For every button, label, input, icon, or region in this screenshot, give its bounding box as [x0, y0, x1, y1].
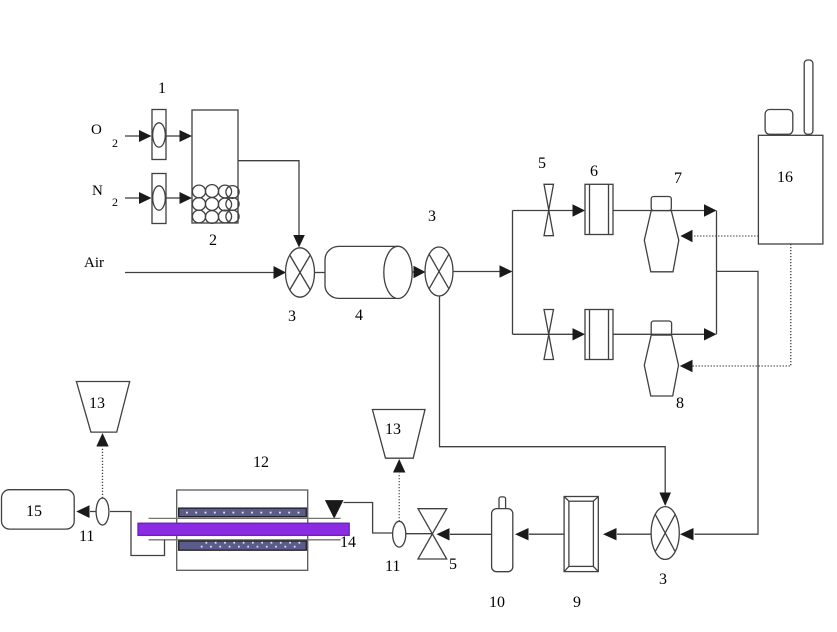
- svg-text:15: 15: [26, 503, 42, 520]
- wire valve 3a to buffer tank 4: [315, 272, 326, 274]
- svg-text:3: 3: [288, 308, 296, 325]
- analyzer 8 (bottom branch): [644, 321, 678, 396]
- top electrode dots: [186, 512, 299, 514]
- svg-text:10: 10: [489, 594, 505, 611]
- inner electrode 14 (purple rod): [138, 523, 349, 535]
- label 11 (left): [79, 528, 94, 545]
- dotted vent 11a to trap 13a: [102, 447, 104, 498]
- arrow into analyzer 7: [680, 230, 692, 243]
- valve 5b (needle valve, bottom branch): [544, 310, 554, 360]
- reactor bottom electrode bar: [179, 541, 307, 550]
- dryer 6a (top branch): [585, 184, 613, 234]
- rotameter 1b (N2): [152, 174, 166, 224]
- dryer 6b (bottom branch): [585, 310, 613, 360]
- arrow into valve 3c from top: [659, 493, 671, 507]
- label 8: [676, 395, 684, 412]
- svg-text:8: 8: [676, 395, 684, 412]
- arrow into trap 13a: [96, 433, 108, 447]
- svg-text:6: 6: [590, 163, 598, 180]
- wire collector to downcomer: [695, 271, 759, 534]
- valve 5c (needle valve, bottom): [418, 509, 447, 559]
- label 14: [340, 534, 356, 551]
- svg-text:3: 3: [428, 208, 436, 225]
- label 3 (valve 3a): [288, 308, 296, 325]
- wire branch riser: [512, 211, 514, 335]
- wire valve 3b to branch point: [453, 265, 513, 277]
- label 15: [26, 503, 42, 520]
- wire sampler 10 to valve 5c: [437, 528, 492, 540]
- wire Air to valve 3a: [125, 266, 286, 279]
- wire pump 11a to detector 15: [76, 505, 96, 518]
- pump 11b: [393, 521, 406, 547]
- wire valve 3b down to bottom valve 3c: [440, 296, 666, 494]
- wire N2 to rotameter 1b: [125, 192, 152, 204]
- wire valve 5c to pump 11b: [406, 533, 432, 535]
- valve 3b: [425, 247, 453, 296]
- valve 5a (needle valve, top branch): [544, 184, 554, 235]
- wire branch to valve 5a: [513, 210, 574, 212]
- reactor 12 shell: [177, 490, 308, 570]
- gas cell 9: [564, 497, 598, 572]
- wire pump 11b to injector 14: [344, 503, 393, 534]
- arrow into analyzer 8: [680, 360, 693, 373]
- label N2 feed: [92, 183, 118, 209]
- mixer column 2: [192, 110, 239, 223]
- svg-text:2: 2: [112, 136, 118, 150]
- label 12: [253, 454, 269, 471]
- label 13 (right): [385, 421, 401, 438]
- wire dryer 6b through analyzer 8 to collector: [613, 328, 717, 340]
- svg-text:2: 2: [209, 232, 217, 249]
- wire rotameter 1b to mixer 2: [166, 192, 192, 204]
- label 10: [489, 594, 505, 611]
- pump 11a: [96, 498, 109, 525]
- svg-text:11: 11: [79, 528, 94, 545]
- label 3 (valve 3b): [428, 208, 436, 225]
- controller 16: [758, 60, 823, 244]
- label 6: [590, 163, 598, 180]
- svg-text:4: 4: [355, 307, 363, 324]
- dotted signal 16 to analyzer 7: [693, 235, 759, 237]
- trap 13a (funnel, left): [76, 382, 129, 433]
- svg-text:7: 7: [674, 170, 682, 187]
- svg-text:13: 13: [385, 421, 401, 438]
- wire arrow into valve 3c from right: [680, 528, 694, 540]
- wire collector line: [716, 211, 718, 335]
- valve 3a (mixing valve): [286, 248, 315, 297]
- wire tank 4 to valve 3b: [412, 266, 425, 278]
- label 11 (right): [385, 558, 400, 575]
- analyzer 7 (top branch): [644, 197, 679, 272]
- wire dryer 6a through analyzer 7 to collector: [613, 204, 717, 216]
- wire O2 to rotameter 1: [125, 130, 152, 142]
- svg-text:Air: Air: [84, 255, 104, 271]
- arrow into trap 13b: [393, 459, 405, 473]
- wire valve 5a to dryer 6a: [573, 204, 586, 216]
- sampler 10: [492, 497, 513, 572]
- label 3 (valve 3c): [659, 571, 667, 588]
- svg-text:14: 14: [340, 534, 356, 551]
- svg-text:11: 11: [385, 558, 400, 575]
- svg-text:3: 3: [659, 571, 667, 588]
- label 1: [158, 80, 166, 97]
- injector cone: [325, 500, 344, 519]
- wire reactor outlet to pump 11a: [110, 512, 165, 556]
- valve 3c (bottom): [651, 507, 679, 560]
- svg-text:5: 5: [449, 556, 457, 573]
- wire branch to valve 5b: [513, 333, 574, 335]
- dotted vent 11b to trap 13b: [398, 473, 400, 521]
- dotted signal 16 to analyzer 8: [693, 244, 791, 366]
- quartz tube top wall: [149, 517, 341, 519]
- trap 13b (funnel, right): [372, 410, 425, 459]
- wire valve 3c to cell 9: [603, 528, 651, 540]
- label 5 (top): [538, 155, 546, 172]
- quartz tube bottom wall: [149, 539, 341, 541]
- label 5 (bottom): [449, 556, 457, 573]
- svg-text:16: 16: [777, 169, 793, 186]
- wire cell 9 to sampler 10: [515, 528, 564, 540]
- label 9: [573, 594, 581, 611]
- svg-text:5: 5: [538, 155, 546, 172]
- wire valve 5b to dryer 6b: [573, 328, 586, 340]
- rotameter 1 (O2): [152, 110, 166, 160]
- bottom electrode dots: [201, 542, 300, 548]
- label 2: [209, 232, 217, 249]
- reactor top electrode bar: [179, 508, 307, 517]
- label 16: [777, 169, 793, 186]
- svg-text:1: 1: [158, 80, 166, 97]
- wire rotameter 1 to mixer 2: [166, 130, 192, 142]
- label O2 feed: [91, 122, 118, 150]
- label Air: [84, 255, 104, 271]
- svg-text:O: O: [91, 122, 102, 138]
- label 7: [674, 170, 682, 187]
- wire mixer 2 to valve 3a: [238, 161, 305, 248]
- detector 15: [2, 490, 75, 529]
- svg-text:9: 9: [573, 594, 581, 611]
- label 4: [355, 307, 363, 324]
- svg-text:13: 13: [89, 395, 105, 412]
- svg-text:2: 2: [112, 195, 118, 209]
- svg-text:N: N: [92, 183, 103, 199]
- buffer tank 4: [325, 246, 412, 298]
- svg-text:12: 12: [253, 454, 269, 471]
- label 13 (left): [89, 395, 105, 412]
